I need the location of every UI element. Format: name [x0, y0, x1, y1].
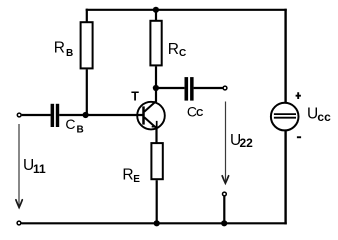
arrow U11 shaft: [18, 124, 20, 206]
capacitor C1 CB right plate: [56, 104, 59, 127]
wire: right rail lower (from Ucc to bottom): [284, 131, 286, 225]
transistor Q1 T body circle: [137, 102, 165, 130]
wire: RC top lead: [155, 10, 157, 21]
capacitor C2 CC left plate: [185, 77, 189, 101]
svg-text:cc: cc: [317, 110, 331, 124]
wire: lower output terminal to bottom rail: [223, 196, 225, 223]
source Ucc inner bar upper: [274, 113, 296, 115]
terminal: bottom left: [17, 221, 21, 225]
arrow U11 head: [16, 200, 22, 208]
node: emitter bottom junction dot: [154, 220, 160, 226]
capacitor C1 CB left plate: [51, 104, 55, 127]
terminal: output lower: [223, 192, 227, 196]
svg-text:C: C: [196, 108, 203, 119]
transistor Q1 emitter arrowhead: [152, 121, 158, 128]
resistor R2 RC: [150, 21, 161, 66]
svg-text:C: C: [65, 116, 75, 132]
transistor Q1 collector stroke: [144, 101, 156, 112]
resistor R1 RB: [81, 22, 93, 68]
svg-text:R: R: [168, 41, 179, 58]
wire: RB top lead: [86, 9, 88, 22]
node: top junction dot: [153, 7, 159, 13]
wire: top rail: [86, 9, 287, 11]
svg-text:11: 11: [33, 162, 46, 176]
wire: collector node to CC: [156, 87, 185, 89]
arrow U22 shaft: [225, 102, 227, 183]
wire: collector vertical: [155, 88, 157, 102]
transistor Q1 emitter stroke: [144, 117, 157, 128]
terminal: output upper: [223, 86, 227, 90]
svg-text:B: B: [66, 48, 73, 59]
wire: RE bottom lead: [156, 180, 158, 223]
arrow U22 head: [222, 176, 228, 184]
svg-text:R: R: [122, 166, 133, 183]
label minus: [297, 136, 301, 138]
transistor Q1 base bar: [142, 106, 145, 124]
svg-text:T: T: [131, 90, 139, 104]
label plus: [296, 92, 301, 99]
capacitor C2 CC right plate: [190, 77, 194, 101]
wire: emitter vertical to RE: [155, 128, 157, 143]
wire: bottom rail: [22, 222, 287, 224]
terminal: input: [17, 113, 21, 117]
wire: CB to transistor base: [59, 114, 143, 116]
wire: RC bottom lead to collector node: [155, 66, 157, 88]
svg-text:22: 22: [240, 136, 254, 150]
svg-text:B: B: [77, 124, 84, 135]
node: collector junction dot: [153, 85, 159, 91]
resistor R3 RE: [151, 143, 162, 179]
node: bottom junction dot under terminal: [221, 220, 227, 226]
wire: input terminal to CB: [22, 114, 51, 116]
source Ucc inner bar lower: [274, 117, 296, 119]
node: base junction dot: [83, 112, 89, 118]
wire: CC to output terminal: [194, 87, 223, 89]
wire: RB bottom lead to base node: [86, 69, 88, 115]
source Ucc body circle: [271, 103, 299, 131]
svg-text:E: E: [133, 174, 140, 185]
wire: right rail upper (to Ucc): [284, 9, 286, 103]
svg-text:C: C: [179, 48, 186, 59]
svg-text:R: R: [54, 40, 65, 57]
